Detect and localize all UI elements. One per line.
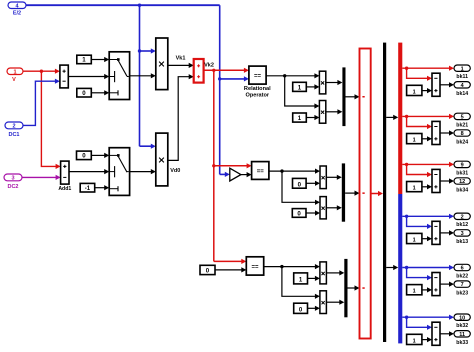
wire Switch1 to product Vk1 <box>130 73 156 78</box>
wire product g2b to mux <box>326 205 342 210</box>
label Vk2 <box>204 62 214 68</box>
inport 4 E/2 <box>8 2 26 17</box>
demux D2 (red) <box>398 43 402 194</box>
node E/2 branch <box>138 3 141 6</box>
svg-text:9: 9 <box>461 163 464 169</box>
wire const g3b <box>308 306 320 311</box>
wire branch to sum bk31 <box>407 164 432 177</box>
wire E/2 drop right <box>219 5 221 174</box>
constant 1 (bk24) <box>407 134 422 144</box>
label Vk1 <box>176 55 186 61</box>
wire E/2 to product Vk1 <box>140 48 156 53</box>
wire branch to sum bk12 <box>407 216 432 229</box>
wire const g1a <box>306 84 319 89</box>
svg-text:==: == <box>254 74 262 80</box>
product Vd0 <box>156 133 168 186</box>
wire Vk2 drop <box>213 70 215 261</box>
wire Vk1 to sum Vk2 <box>168 63 194 68</box>
wire const1 to Switch1 <box>91 57 109 62</box>
switch Switch1 <box>109 52 129 100</box>
svg-text:==: == <box>251 264 259 270</box>
wire demux to outport bk21 <box>402 114 454 119</box>
svg-text:5: 5 <box>461 115 464 121</box>
wire constant to sum bk33 <box>422 337 432 342</box>
outport 5 bk21 <box>454 113 470 128</box>
wire relop1 out <box>266 73 319 78</box>
wire mux M3 out <box>348 285 360 290</box>
inport 3 DC2 <box>4 174 22 190</box>
constant 0 (g2a) <box>293 178 307 188</box>
outport 2 bk12 <box>454 213 470 228</box>
svg-text:Vd0: Vd0 <box>170 168 180 174</box>
node branch bk11 <box>405 67 408 70</box>
node relop1 branch <box>283 74 286 77</box>
wire product g3a to mux <box>326 270 344 275</box>
wire DC2 to Add1 <box>22 175 61 180</box>
wire demux to outport bk32 <box>402 315 454 320</box>
svg-text:Vk1: Vk1 <box>176 55 186 61</box>
wire sum to outport bk23 <box>440 282 454 287</box>
wire demux to outport bk22 <box>402 265 454 270</box>
svg-text:bk31: bk31 <box>456 170 468 176</box>
svg-text:7: 7 <box>461 282 464 288</box>
label Relational Operator <box>244 86 271 99</box>
wire constant to sum bk14 <box>422 88 432 93</box>
constant 0 (Switch2 up) <box>77 151 92 160</box>
constant 1 (bk34) <box>407 182 422 192</box>
outport 12 bk34 <box>454 178 470 194</box>
wire branch to sum bk11 <box>407 68 432 81</box>
node Vk2 mid branch <box>212 164 215 167</box>
node E/2 left to Vk1 <box>138 49 141 52</box>
wire const-1 to Switch2 <box>95 185 110 190</box>
product g2b <box>320 197 326 219</box>
svg-text:bk12: bk12 <box>456 222 468 228</box>
wire relop3 down <box>282 267 320 299</box>
sum block bk21/bk24 <box>432 121 440 144</box>
svg-text:1: 1 <box>13 69 16 75</box>
node E/2 right branch <box>218 77 221 80</box>
sum block bk11/bk14 <box>432 73 440 96</box>
wire E/2 main <box>26 4 220 6</box>
sum block bk32/bk33 <box>432 322 440 345</box>
label Vd0 <box>170 168 180 174</box>
svg-text:bk11: bk11 <box>456 74 468 80</box>
outport 7 bk23 <box>454 281 470 297</box>
svg-text:bk32: bk32 <box>456 323 468 329</box>
sum block Add1 <box>61 161 69 184</box>
wire E/2 to relational operator <box>220 76 249 81</box>
sum block Sum <box>60 65 68 88</box>
constant 0 (Switch1 down) <box>77 88 92 97</box>
constant 0 (g2b) <box>292 209 306 218</box>
wire DC1 to Sum <box>23 79 60 126</box>
wire demux to outport bk31 <box>402 162 454 167</box>
wire mux M1 out <box>346 94 360 99</box>
mux M3 <box>344 259 347 317</box>
wire mux M4 out <box>371 191 383 196</box>
svg-text:1: 1 <box>413 138 416 144</box>
svg-text:1: 1 <box>413 237 416 243</box>
outport 3 bk13 <box>454 230 470 246</box>
wire E/2 drop left <box>139 5 141 146</box>
wire V to Sum <box>23 69 60 74</box>
wire gain to relational operator 2 <box>241 172 252 177</box>
wire constant to sum bk13 <box>422 236 432 241</box>
wire E/2 to gain <box>220 172 230 177</box>
product g1b <box>319 101 325 124</box>
svg-text:Vk2: Vk2 <box>204 62 214 68</box>
wire demux to outport bk12 <box>402 214 454 219</box>
wire Sum to Switch1 <box>68 74 109 79</box>
relational operator 1 <box>249 66 266 84</box>
wire E/2 to product Vd0 <box>140 144 156 149</box>
constant 1 (bk23) <box>407 285 422 295</box>
label Add1 <box>58 186 71 192</box>
wire V drop to Add1 <box>41 71 60 169</box>
wire mux M2 out <box>345 191 359 196</box>
outport 4 bk14 <box>454 82 470 98</box>
relational operator 3 <box>246 257 263 275</box>
svg-text:1: 1 <box>413 289 416 295</box>
inport 2 DC1 <box>5 122 23 138</box>
node branch bk32 <box>405 316 408 319</box>
wire branch to sum bk22 <box>407 268 432 281</box>
svg-text:Operator: Operator <box>245 93 269 99</box>
wire const0b to Switch2 <box>91 153 109 158</box>
constant 1 (bk13) <box>407 233 422 243</box>
constant 1 (g1b) <box>293 113 307 122</box>
product g3a <box>320 262 327 284</box>
node Vk2 branch <box>212 69 215 72</box>
constant 1 (g3a) <box>294 273 308 284</box>
wire demux to outport bk11 <box>402 66 454 71</box>
svg-text:bk34: bk34 <box>456 187 468 193</box>
outport 9 bk31 <box>454 161 470 176</box>
svg-text:V: V <box>12 77 16 83</box>
mux M2 <box>342 163 345 221</box>
svg-text:bk23: bk23 <box>456 290 468 296</box>
outport 11 bk33 <box>454 331 470 347</box>
wire demux D1 to red demux <box>386 115 398 120</box>
constant 1 (bk14) <box>407 85 422 95</box>
svg-text:DC2: DC2 <box>7 184 18 190</box>
svg-text:Add1: Add1 <box>58 186 71 192</box>
wire constant to sum bk24 <box>422 136 432 141</box>
svg-text:1: 1 <box>461 66 464 72</box>
wire sum to outport bk34 <box>440 178 454 183</box>
node relop2 branch <box>280 169 283 172</box>
outport 8 bk24 <box>454 130 470 146</box>
svg-text:bk14: bk14 <box>456 91 468 97</box>
svg-text:1: 1 <box>413 338 416 344</box>
svg-text:bk13: bk13 <box>456 239 468 245</box>
sum block bk31/bk34 <box>432 169 440 192</box>
constant 1 (Switch1 up) <box>77 55 92 64</box>
gain (E/2 inverter) <box>230 168 241 181</box>
wire Switch2 to product Vd0 <box>130 169 156 174</box>
wire Vk2 out <box>204 68 249 73</box>
constant 0 (relop3) <box>200 265 215 274</box>
wire product g2a to mux <box>326 175 342 180</box>
product g3b <box>320 291 327 314</box>
wire relop2 out <box>269 169 320 174</box>
constant 1 (g1a) <box>293 82 307 91</box>
constant -1 (Switch2 down) <box>80 183 95 192</box>
product g2a <box>320 166 326 189</box>
svg-text:Relational: Relational <box>244 86 271 92</box>
svg-text:-1: -1 <box>85 185 91 192</box>
demux D3 (blue) <box>398 194 402 343</box>
wire constant to sum bk23 <box>422 287 432 292</box>
wire sum to outport bk33 <box>440 331 454 336</box>
svg-text:DC1: DC1 <box>8 132 19 138</box>
wire Vk2 to relational operator 3 <box>214 259 247 264</box>
demux D1 <box>383 43 386 342</box>
inport 1 V <box>7 68 23 83</box>
wire constant to sum bk34 <box>422 184 432 189</box>
mux M4 (selected) <box>360 49 371 339</box>
svg-text:2: 2 <box>12 124 15 130</box>
node branch bk21 <box>405 115 408 118</box>
mux M1 <box>342 67 345 126</box>
wire relop2 down <box>282 171 320 205</box>
svg-text:3: 3 <box>461 231 464 237</box>
svg-text:6: 6 <box>461 266 464 272</box>
sum block bk22/bk23 <box>432 273 440 296</box>
svg-text:0: 0 <box>82 153 86 160</box>
wire product g1b to mux <box>326 109 343 114</box>
wire product g1a to mux <box>326 80 343 85</box>
svg-text:12: 12 <box>459 179 465 185</box>
wire const g1b <box>306 115 319 120</box>
svg-text:bk24: bk24 <box>456 139 468 145</box>
wire const g3a <box>308 276 320 281</box>
svg-text:E/2: E/2 <box>13 11 21 17</box>
svg-text:2: 2 <box>461 214 464 220</box>
wire demux D1 to blue demux <box>386 265 398 270</box>
product Vk1 <box>156 38 168 90</box>
wire const0 to relop3 <box>215 267 246 272</box>
wire sum to outport bk14 <box>440 82 454 87</box>
wire const g2a <box>306 181 320 186</box>
wire Vk2 to relational operator 2 <box>214 163 252 168</box>
svg-text:bk21: bk21 <box>456 122 468 128</box>
wire const g2b <box>306 210 320 215</box>
wire Vd0 up to sum Vk2 <box>168 74 194 160</box>
wire sum to outport bk13 <box>440 230 454 235</box>
outport 1 bk11 <box>454 65 470 80</box>
wire const0 to Switch1 <box>91 90 109 95</box>
node branch bk22 <box>405 266 408 269</box>
wire sum to outport bk24 <box>440 130 454 135</box>
switch Switch2 <box>109 148 129 196</box>
svg-text:3: 3 <box>11 176 14 182</box>
constant 1 (bk33) <box>407 334 422 344</box>
svg-text:8: 8 <box>461 131 464 137</box>
product g1a <box>319 71 325 94</box>
svg-text:bk22: bk22 <box>456 273 468 279</box>
constant 0 (g3b) <box>294 303 308 313</box>
wire Add1 to Switch2 <box>69 169 109 174</box>
wire product g3b to mux <box>326 300 344 305</box>
svg-text:10: 10 <box>459 315 465 321</box>
wire relop1 down <box>285 76 320 109</box>
sum block bk12/bk13 <box>432 221 440 244</box>
relational operator 2 <box>252 162 269 180</box>
svg-text:1: 1 <box>413 186 416 192</box>
node branch bk12 <box>405 215 408 218</box>
sum Vk2 (selected) <box>194 59 204 83</box>
wire relop3 out <box>264 264 320 269</box>
outport 6 bk22 <box>454 264 470 279</box>
svg-text:bk33: bk33 <box>456 340 468 346</box>
outport 10 bk32 <box>454 314 470 329</box>
svg-text:1: 1 <box>413 89 416 95</box>
svg-text:11: 11 <box>459 332 465 338</box>
svg-text:==: == <box>257 169 265 175</box>
node branch bk31 <box>405 163 408 166</box>
node V branch <box>40 70 43 73</box>
node relop3 branch <box>280 265 283 268</box>
wire branch to sum bk32 <box>407 317 432 330</box>
wire branch to sum bk21 <box>407 116 432 129</box>
